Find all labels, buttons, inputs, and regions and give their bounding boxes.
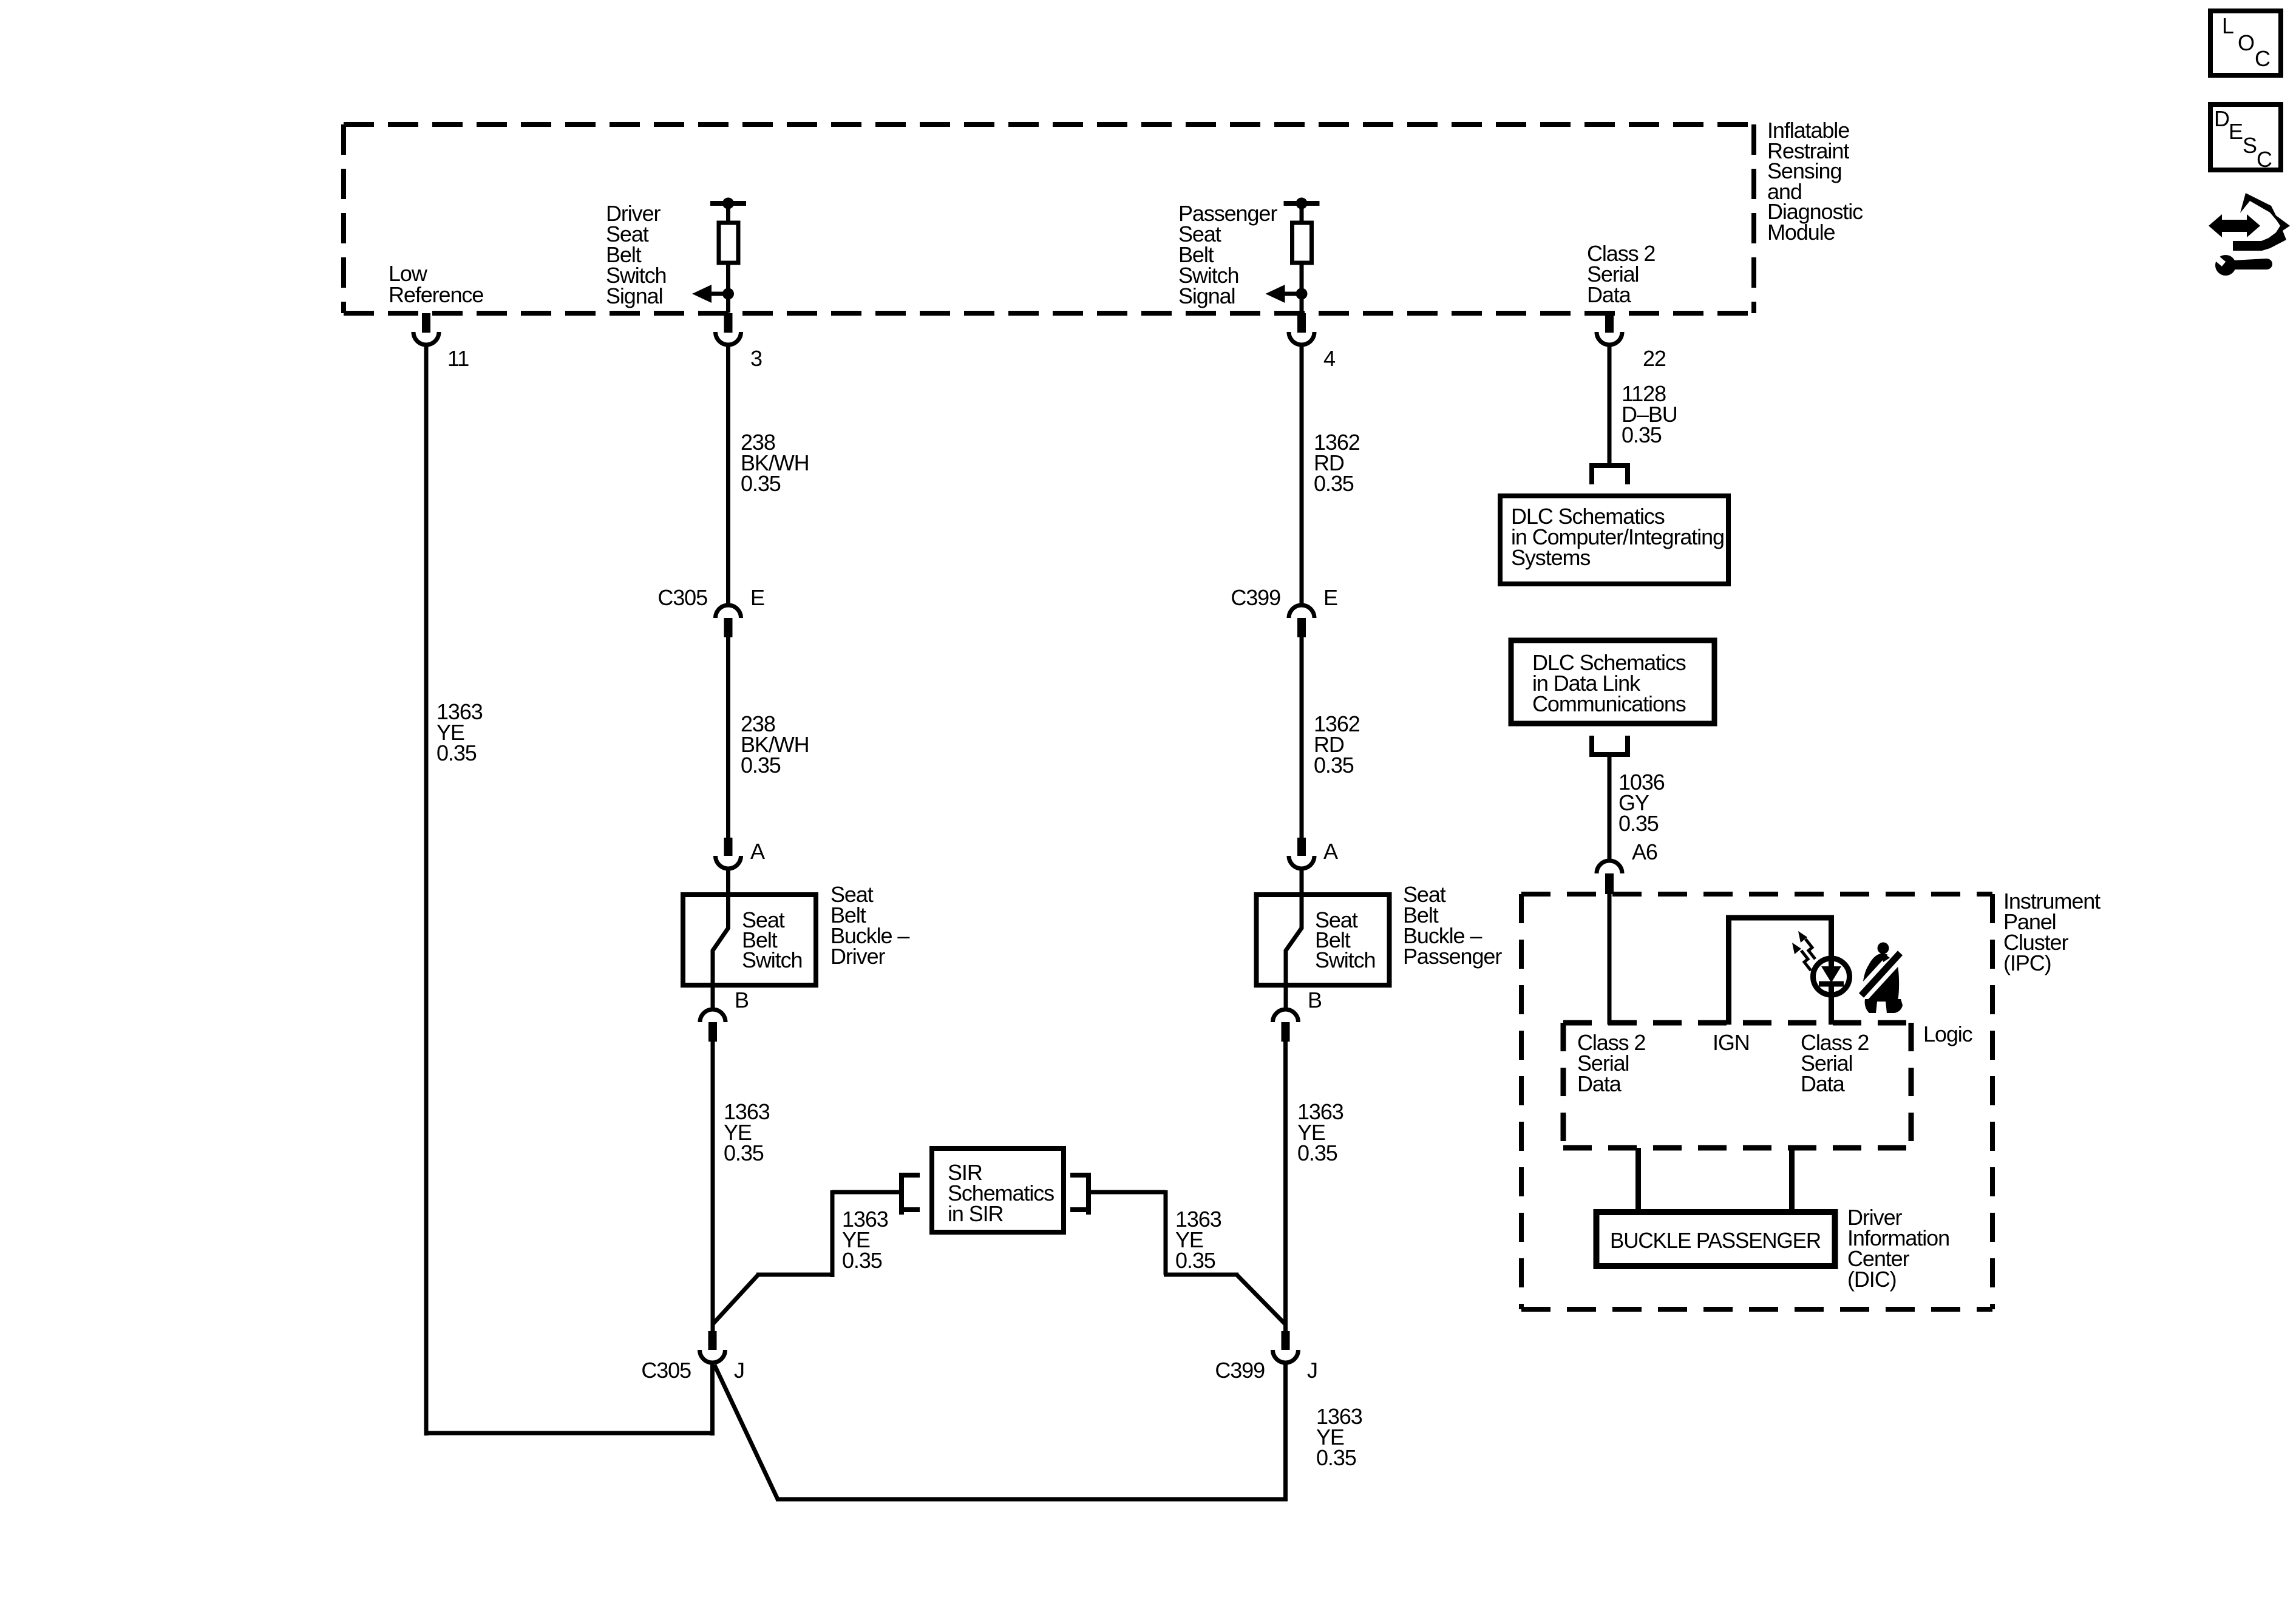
- IGN loop wire inside IPC: [1729, 918, 1832, 1025]
- SRS module dashed box (Inflatable Restraint Sensing and Diagnostic Module): [344, 124, 1754, 313]
- troubleshooting icon: double arrow: [2209, 214, 2260, 237]
- connector C399 pin J: [1273, 1331, 1299, 1363]
- IPC name label: [2003, 889, 2101, 975]
- Driver Seat Belt Switch Signal pin label: [606, 201, 666, 308]
- wire: diagonal from C305 J to bottom bus: [715, 1365, 778, 1499]
- svg-text:Passenger: Passenger: [1403, 944, 1502, 969]
- SIR branch wire (left, from C305 J up to SIR bracket): [713, 1190, 901, 1324]
- svg-text:0.35: 0.35: [1618, 811, 1659, 836]
- SIR Schematics box: [932, 1148, 1064, 1232]
- switch blade (driver): [713, 892, 729, 986]
- seat belt switch box (passenger): [1257, 895, 1390, 985]
- svg-text:Communications: Communications: [1532, 691, 1686, 716]
- wire label 1363 YE 0.35 (below C399 J): [1316, 1404, 1362, 1470]
- connector C305 pin E: [716, 605, 741, 637]
- svg-text:Data: Data: [1577, 1071, 1622, 1096]
- component label: Seat Belt Buckle - Driver: [830, 882, 909, 969]
- wire 238 BK/WH (pin 3 to C305 E): [726, 345, 730, 606]
- svg-text:0.35: 0.35: [1622, 422, 1662, 447]
- wire below C399 J to bottom bus: [1283, 1363, 1288, 1502]
- svg-text:Data: Data: [1801, 1071, 1846, 1096]
- wire 238 BK/WH (C305 E to switch pin A): [726, 637, 730, 839]
- svg-text:0.35: 0.35: [741, 753, 781, 778]
- SIR branch wire (right, down to C399 J): [1089, 1190, 1286, 1324]
- pin 4 connector (module): [1289, 313, 1314, 345]
- Logic dashed box (inside IPC): [1563, 1023, 1911, 1148]
- svg-text:S: S: [2243, 133, 2257, 158]
- svg-text:E: E: [1323, 585, 1337, 610]
- svg-text:0.35: 0.35: [1316, 1445, 1356, 1470]
- wire 1363 YE (passenger B down to C399 J): [1283, 1042, 1288, 1332]
- connector C305 pin J: [700, 1331, 725, 1363]
- Passenger Seat Belt Switch Signal pin label: [1178, 201, 1277, 308]
- wire label 1128 D-BU 0.35: [1622, 381, 1677, 447]
- wire label 1362 RD 0.35 (upper passenger): [1314, 430, 1360, 496]
- svg-text:A6: A6: [1632, 839, 1657, 864]
- wire 1363 YE (low reference, pin 11 down): [424, 345, 429, 1436]
- svg-text:A: A: [750, 839, 765, 864]
- LOC legend box: [2210, 11, 2281, 75]
- wire label 1363 YE 0.35 (passenger B): [1297, 1099, 1343, 1165]
- svg-text:0.35: 0.35: [741, 471, 781, 496]
- DLC box 1 text: [1511, 504, 1724, 570]
- module name label: [1767, 118, 1863, 245]
- wire label 1363 YE 0.35 (driver B): [724, 1099, 770, 1165]
- svg-text:B: B: [735, 988, 749, 1012]
- DLC Schematics in Data Link Communications box: [1511, 640, 1714, 724]
- svg-text:4: 4: [1323, 346, 1335, 371]
- wire 1128 D-BU (pin 22 down): [1608, 345, 1612, 466]
- component label: Seat Belt Buckle - Passenger: [1403, 882, 1502, 969]
- svg-text:(DIC): (DIC): [1847, 1267, 1896, 1292]
- LED indicator (seat belt lamp): [1813, 958, 1850, 995]
- troubleshooting icon: wrench: [2213, 255, 2272, 276]
- svg-text:Logic: Logic: [1923, 1022, 1973, 1046]
- pin 3 connector (module): [716, 313, 741, 345]
- connector pin A (driver seat belt switch): [716, 838, 741, 869]
- svg-text:E: E: [2229, 119, 2243, 144]
- connector pin A6 (IPC): [1597, 861, 1622, 894]
- svg-text:(IPC): (IPC): [2003, 951, 2051, 975]
- BUCKLE PASSENGER box (DIC display): [1597, 1212, 1835, 1266]
- wires Logic box to DIC box: [1639, 1148, 1792, 1212]
- LOC letters: [2222, 13, 2270, 71]
- wire A6 into IPC: [1608, 894, 1612, 1025]
- SIR connector bracket (right): [1070, 1173, 1089, 1215]
- off-page bracket below DLC box 2: [1589, 736, 1630, 754]
- DLC Schematics in Computer/Integrating Systems box: [1500, 496, 1728, 584]
- wire: bottom bus horizontal: [776, 1497, 1286, 1502]
- svg-text:A: A: [1323, 839, 1338, 864]
- svg-text:BUCKLE PASSENGER: BUCKLE PASSENGER: [1610, 1228, 1821, 1253]
- svg-text:11: 11: [447, 346, 469, 371]
- fastened seat belt occupant icon: [1857, 943, 1904, 1014]
- svg-text:Systems: Systems: [1511, 545, 1590, 570]
- svg-text:Module: Module: [1767, 220, 1835, 245]
- wire below C305 J to low-reference junction: [710, 1363, 715, 1436]
- svg-text:O: O: [2238, 30, 2254, 55]
- svg-text:0.35: 0.35: [724, 1141, 764, 1165]
- svg-text:Switch: Switch: [1315, 947, 1375, 972]
- wire A to switch box (passenger): [1300, 869, 1304, 895]
- svg-text:0.35: 0.35: [436, 741, 477, 765]
- wire label 238 BK/WH 0.35 (lower driver): [741, 711, 809, 778]
- svg-text:C399: C399: [1231, 585, 1280, 610]
- resistor R-driver (seat belt switch signal pull-up): [710, 198, 746, 313]
- wire label 1363 YE 0.35 (SIR right): [1175, 1207, 1221, 1273]
- resistor R-passenger (seat belt switch signal pull-up): [1284, 198, 1320, 313]
- svg-text:0.35: 0.35: [1297, 1141, 1337, 1165]
- svg-text:J: J: [734, 1358, 744, 1383]
- svg-text:C305: C305: [657, 585, 707, 610]
- Class 2 Serial Data label (IPC right): [1801, 1030, 1869, 1096]
- svg-text:L: L: [2222, 13, 2233, 38]
- wire: low reference horizontal run: [426, 1431, 715, 1436]
- svg-text:Signal: Signal: [606, 283, 662, 308]
- Low Reference pin label: [389, 261, 483, 307]
- svg-text:E: E: [750, 585, 764, 610]
- wire A to switch box (driver): [726, 869, 730, 895]
- connector pin A (passenger seat belt switch): [1289, 838, 1314, 869]
- svg-text:J: J: [1307, 1358, 1317, 1383]
- connector C399 pin E: [1289, 605, 1314, 637]
- SIR connector bracket (left): [902, 1173, 920, 1215]
- svg-text:C: C: [2255, 46, 2270, 71]
- wire label 238 BK/WH 0.35 (upper driver): [741, 430, 809, 496]
- Driver Information Center label: [1847, 1205, 1949, 1292]
- svg-text:IGN: IGN: [1713, 1030, 1750, 1055]
- svg-text:Reference: Reference: [389, 282, 483, 307]
- switch box text (driver): [742, 907, 802, 972]
- DLC box 2 text: [1532, 650, 1686, 716]
- connector pin B (driver seat belt switch): [700, 988, 725, 1042]
- wire 1362 RD (pin 4 to C399 E): [1300, 345, 1304, 606]
- off-page bracket above DLC box 1: [1589, 466, 1630, 484]
- svg-text:D: D: [2214, 106, 2229, 131]
- arrow (driver signal, pointing left): [692, 285, 729, 303]
- wire 1362 RD (C399 E to switch pin A): [1300, 637, 1304, 839]
- Class 2 Serial Data label (IPC left): [1577, 1030, 1645, 1096]
- svg-text:0.35: 0.35: [1175, 1248, 1215, 1273]
- svg-text:22: 22: [1643, 346, 1666, 371]
- wire label 1363 YE 0.35 (SIR left): [842, 1207, 888, 1273]
- DESC legend box: [2210, 104, 2281, 170]
- SIR box text: [948, 1160, 1054, 1226]
- wire label 1363 YE 0.35 (low reference): [436, 699, 483, 765]
- IPC dashed box (Instrument Panel Cluster): [1521, 894, 1992, 1309]
- svg-text:C399: C399: [1215, 1358, 1265, 1383]
- svg-text:Data: Data: [1587, 282, 1632, 307]
- connector pin B (passenger seat belt switch): [1273, 988, 1299, 1042]
- troubleshooting icon: outline arrow shape: [2233, 193, 2290, 251]
- svg-text:Driver: Driver: [830, 944, 886, 969]
- svg-text:0.35: 0.35: [1314, 753, 1354, 778]
- svg-text:Signal: Signal: [1178, 283, 1235, 308]
- DESC letters: [2214, 106, 2272, 172]
- pin 11 connector (module): [413, 313, 439, 345]
- svg-text:C: C: [2257, 147, 2272, 172]
- svg-text:0.35: 0.35: [1314, 471, 1354, 496]
- seat belt switch box (driver): [683, 895, 816, 985]
- wire 1363 YE (driver B down to C305 J): [711, 1042, 715, 1332]
- arrow (passenger signal, pointing left): [1266, 285, 1302, 303]
- LED light arrows: [1792, 931, 1815, 971]
- svg-text:3: 3: [750, 346, 762, 371]
- wire 1036 GY (to IPC pin A6): [1608, 754, 1612, 860]
- wire label 1362 RD 0.35 (lower passenger): [1314, 711, 1360, 778]
- svg-text:B: B: [1308, 988, 1322, 1012]
- switch blade (passenger): [1286, 892, 1302, 986]
- switch box text (passenger): [1315, 907, 1375, 972]
- svg-text:Switch: Switch: [742, 947, 802, 972]
- Class 2 Serial Data pin label (module): [1587, 241, 1655, 307]
- svg-text:0.35: 0.35: [842, 1248, 882, 1273]
- wire label 1036 GY 0.35: [1618, 770, 1665, 836]
- svg-text:in SIR: in SIR: [948, 1201, 1004, 1226]
- svg-text:C305: C305: [641, 1358, 691, 1383]
- pin 22 connector (module): [1597, 313, 1622, 345]
